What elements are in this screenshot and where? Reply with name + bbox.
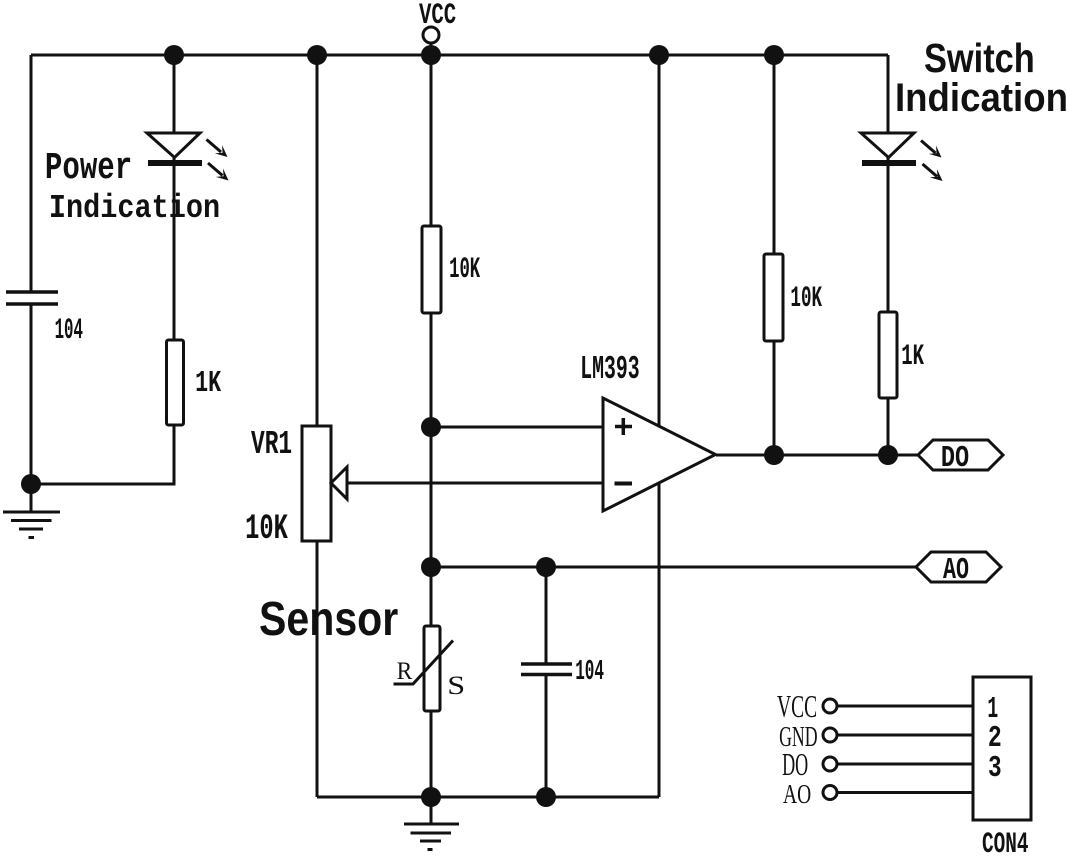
svg-text:S: S (447, 672, 465, 701)
svg-text:1K: 1K (901, 340, 924, 373)
svg-text:DO: DO (782, 747, 808, 783)
svg-text:DO: DO (941, 441, 969, 476)
svg-text:Switch: Switch (924, 35, 1035, 80)
svg-text:AO: AO (783, 780, 811, 810)
svg-text:3: 3 (988, 752, 1002, 786)
svg-text:Power: Power (45, 148, 132, 191)
svg-text:Sensor: Sensor (259, 593, 398, 646)
svg-text:104: 104 (55, 314, 83, 348)
svg-text:R: R (397, 657, 413, 685)
svg-text:AO: AO (943, 553, 969, 588)
svg-text:10K: 10K (245, 510, 289, 550)
svg-text:VCC: VCC (419, 0, 456, 32)
svg-text:2: 2 (988, 721, 1002, 756)
svg-text:104: 104 (575, 656, 604, 688)
svg-text:CON4: CON4 (982, 829, 1029, 857)
svg-text:Indication: Indication (895, 76, 1067, 121)
svg-text:10K: 10K (790, 283, 822, 316)
svg-text:VCC: VCC (777, 689, 817, 724)
svg-text:10K: 10K (449, 254, 480, 287)
svg-text:VR1: VR1 (251, 425, 292, 463)
svg-text:LM393: LM393 (580, 351, 639, 389)
svg-text:Indication: Indication (49, 190, 220, 228)
svg-text:1K: 1K (195, 366, 221, 401)
